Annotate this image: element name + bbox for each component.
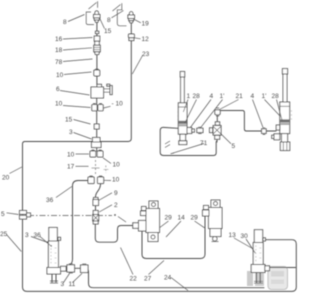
leader 5 left [7, 213, 19, 215]
label 1 row [187, 93, 191, 100]
hose 21 bridge [220, 111, 276, 132]
label 13 [229, 232, 237, 239]
ferrule 15 [94, 124, 99, 129]
label 36 upper [46, 197, 54, 204]
label 16 [55, 36, 63, 43]
label 5 left [1, 211, 5, 218]
leader 10 below box left [63, 106, 91, 108]
label 23 [142, 51, 150, 58]
label 28 row left [193, 93, 201, 100]
valve block left [133, 201, 160, 242]
bracket clip right [117, 10, 126, 26]
svg-text:8: 8 [63, 19, 67, 26]
leader 10 below box right [104, 106, 111, 108]
label 8 right [107, 17, 111, 24]
fitting 16 [94, 31, 100, 41]
svg-text:1': 1' [262, 93, 267, 100]
label 4 row right [251, 93, 255, 100]
leader 19 [134, 19, 141, 23]
leader 71 [171, 144, 205, 154]
flag tick above fitting 8 left [89, 1, 98, 9]
label 11 stem [69, 281, 76, 288]
leader 6 [60, 91, 90, 96]
fitting 3 on brake line [67, 264, 75, 273]
fitting 12 [128, 34, 134, 41]
label 3 chain [69, 129, 73, 136]
svg-text:23: 23 [142, 51, 150, 58]
label 10 pair1 right [113, 162, 121, 169]
label 3 reservoir [25, 232, 29, 239]
svg-text:10: 10 [67, 152, 75, 159]
svg-text:24: 24 [164, 275, 172, 282]
label 8 left [63, 19, 67, 26]
leader 21 [220, 100, 239, 110]
leader 27 [149, 261, 165, 275]
label 1' row left [220, 93, 225, 100]
fitting 9 [93, 198, 99, 206]
leader 4 row right [253, 100, 264, 128]
wire B to 12 [130, 23, 132, 34]
label 15 lower [65, 117, 73, 124]
hose to valve 5 [100, 141, 128, 143]
left brake cylinder rod [180, 72, 185, 104]
hose 22 z-path [95, 224, 133, 242]
leader 9 [99, 193, 113, 201]
label 10 below box [55, 101, 63, 108]
leader 1 row [183, 100, 188, 113]
label 1' row right [262, 93, 267, 100]
svg-text:12: 12 [142, 36, 150, 43]
leader 1' row left [201, 100, 223, 128]
leader 28 row left [185, 100, 197, 124]
svg-text:10: 10 [56, 72, 64, 79]
svg-text:16: 16 [55, 36, 63, 43]
right cylinder port upper [276, 125, 280, 130]
leader 10 pair1 right [103, 158, 111, 164]
svg-text:21: 21 [236, 93, 244, 100]
label 78 [55, 59, 63, 66]
svg-text:14: 14 [178, 215, 186, 222]
leader 36 reservoir [40, 237, 52, 247]
svg-text:10: 10 [113, 162, 121, 169]
svg-text:17: 17 [67, 164, 75, 171]
reservoir 13/30 right [251, 230, 269, 284]
svg-text:1': 1' [220, 93, 225, 100]
leader 13 [234, 238, 253, 249]
label 10 upper [56, 72, 64, 79]
svg-text:11: 11 [69, 281, 76, 288]
svg-text:3: 3 [69, 129, 73, 136]
hose 23 [128, 41, 132, 142]
leader 25 [7, 235, 22, 252]
reservoir 3/36 left [47, 228, 66, 284]
svg-text:10: 10 [55, 101, 63, 108]
leader 5 valve [220, 133, 231, 144]
label 30 [241, 233, 249, 240]
hose 27 valve blocks [142, 216, 205, 259]
hidden part 17 cross [92, 160, 109, 175]
leader 28 row right [277, 100, 283, 121]
leader 36 upper [56, 187, 72, 198]
flag tick above fitting 8 right [113, 3, 122, 11]
label 9 [114, 190, 118, 197]
leader 3 reservoir [31, 237, 48, 244]
svg-text:20: 20 [2, 175, 10, 182]
fitting 8 left nipple [94, 11, 101, 22]
leader 11 stem [73, 274, 83, 283]
svg-text:1: 1 [187, 93, 191, 100]
svg-text:13: 13 [229, 232, 237, 239]
leader 4 row left [190, 100, 211, 129]
svg-text:15: 15 [65, 117, 73, 124]
leader 8 right [112, 11, 124, 18]
svg-text:15: 15 [104, 28, 112, 35]
left brake cylinder body [177, 103, 187, 145]
right brake cylinder body [280, 102, 292, 151]
label 71 [200, 140, 208, 147]
label 29 right [191, 215, 199, 222]
label 2 [114, 202, 118, 209]
wire to fitting 9 [96, 184, 101, 210]
svg-text:29: 29 [191, 215, 199, 222]
leader 78 [63, 59, 93, 62]
svg-text:71: 71 [200, 140, 208, 147]
svg-text:2: 2 [114, 202, 118, 209]
label 14 [178, 215, 186, 222]
svg-text:22: 22 [130, 276, 138, 283]
svg-text:25: 25 [0, 231, 8, 238]
label 36 reservoir [34, 232, 42, 239]
fitting 10 upper [94, 69, 100, 76]
leader 17 [76, 165, 89, 167]
svg-text:- 10: - 10 [112, 101, 124, 108]
svg-text:78: 78 [55, 59, 63, 66]
label 17 [67, 164, 75, 171]
valve 5 assembly [210, 108, 222, 142]
leader 16 [63, 38, 93, 40]
centerline dash-dot [28, 214, 126, 222]
svg-text:18: 18 [55, 47, 63, 54]
leader 15 lower [74, 120, 91, 125]
leader 3 chain [74, 133, 92, 140]
svg-text:28: 28 [193, 93, 201, 100]
label 22 [130, 276, 138, 283]
svg-text:8: 8 [107, 17, 111, 24]
leader 23 [132, 55, 143, 74]
svg-text:30: 30 [241, 233, 249, 240]
leader 10 upper [64, 72, 92, 75]
fitting 1' mid [197, 127, 203, 133]
svg-text:6: 6 [56, 86, 60, 93]
leader 20 [10, 167, 22, 174]
wire chain top [96, 22, 98, 84]
leader 12 [134, 38, 140, 39]
label 3 stem [61, 281, 65, 288]
svg-text:36: 36 [34, 232, 42, 239]
svg-text:4: 4 [210, 93, 214, 100]
label 28 row right [272, 93, 280, 100]
label 6 [56, 86, 60, 93]
label 10 right of box [112, 101, 124, 108]
fitting 18 [94, 41, 101, 54]
right brake cylinder rod [282, 69, 287, 102]
svg-text:19: 19 [142, 21, 150, 28]
label 29 left [165, 215, 173, 222]
leader 2 [99, 205, 112, 212]
bracket clip left [86, 12, 94, 25]
leader 22 [121, 248, 134, 275]
leader 24 [171, 278, 188, 291]
svg-text:3: 3 [25, 232, 29, 239]
svg-text:5: 5 [232, 143, 236, 150]
leader 8 left [68, 15, 85, 22]
label 18 [55, 47, 63, 54]
leader 29 left [160, 221, 169, 228]
box 6 [91, 84, 112, 98]
cross fitting 5 on loop [20, 211, 31, 220]
hose 20/24/25 main loop [23, 142, 297, 292]
label 10 pair2 [112, 177, 120, 184]
fitting 8 right nipple [128, 12, 135, 23]
leader 30 [246, 239, 255, 253]
hose reservoir B port [270, 267, 296, 269]
label 4 row left [210, 93, 214, 100]
svg-text:5: 5 [1, 211, 5, 218]
label 25 [0, 231, 8, 238]
svg-text:10: 10 [112, 177, 120, 184]
brake line bottom left [64, 268, 264, 287]
fitting 11 on brake line [81, 264, 89, 273]
label 19 [142, 21, 150, 28]
label 21 [236, 93, 244, 100]
leader 29 right [195, 221, 205, 228]
label 20 [2, 175, 10, 182]
left cylinder clevis bits [165, 141, 170, 148]
fitting 3 junction [92, 138, 102, 148]
svg-text:4: 4 [251, 93, 255, 100]
right cylinder port lower [272, 134, 280, 140]
fitting pair 10 10 at 180 [88, 176, 104, 184]
svg-text:27: 27 [144, 276, 152, 283]
svg-text:3: 3 [61, 281, 65, 288]
label 10 pair1 left [67, 152, 75, 159]
hose 36 [68, 181, 88, 266]
leader 3 stem [64, 274, 70, 283]
connector 2 [93, 211, 99, 225]
bridge fitting 4 [262, 128, 267, 135]
svg-text:9: 9 [114, 190, 118, 197]
label 27 [144, 276, 152, 283]
label 15 top [104, 28, 112, 35]
leader 18 [63, 48, 92, 50]
left cylinder port 4 [187, 128, 194, 134]
leader 15 top [99, 18, 104, 29]
hose 21 valve to left cylinder [160, 127, 216, 155]
label 24 [164, 275, 172, 282]
label 5 valve [232, 143, 236, 150]
leader 1' row right [265, 100, 281, 117]
watermark logo [247, 267, 288, 290]
svg-text:36: 36 [46, 197, 54, 204]
leader 14 [166, 221, 181, 237]
leader 10 pair1 left [76, 153, 90, 155]
leader 10 pair2 [104, 179, 111, 181]
svg-text:28: 28 [272, 93, 280, 100]
wire below box [96, 98, 98, 151]
fitting 10 below box [92, 104, 103, 111]
label 12 [142, 36, 150, 43]
svg-text:29: 29 [165, 215, 173, 222]
fitting pair 10 10 at 153 [90, 150, 103, 157]
valve block right [203, 200, 223, 242]
